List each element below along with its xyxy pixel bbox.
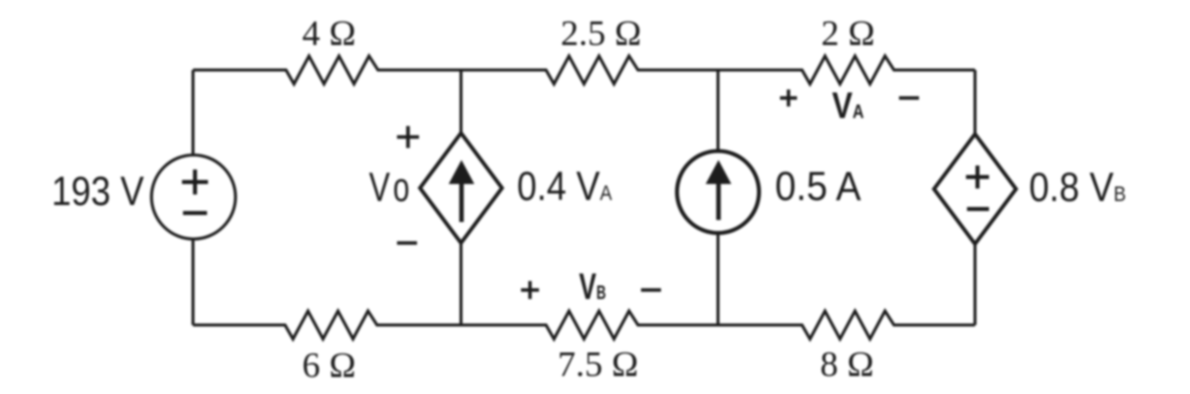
svg-text:0.8 VB: 0.8 VB — [1029, 164, 1126, 210]
minus VA — [899, 96, 919, 99]
plus Vo — [397, 126, 419, 148]
dependent voltage source U2 diamond 0.8VB — [934, 134, 1016, 244]
wire right branch bottom — [974, 244, 977, 325]
svg-text:7.5 Ω: 7.5 Ω — [558, 344, 639, 384]
svg-text:VA: VA — [832, 85, 864, 126]
wire bottom rail with resistors — [193, 311, 975, 339]
svg-text:2 Ω: 2 Ω — [821, 13, 875, 53]
wire node A branch top — [460, 70, 463, 133]
svg-text:o: o — [393, 164, 410, 210]
voltage source V1 193V circle — [152, 155, 236, 239]
svg-text:VB: VB — [579, 266, 606, 307]
wire left branch bottom — [192, 239, 195, 325]
wire node B branch bottom — [717, 232, 720, 325]
svg-text:8 Ω: 8 Ω — [820, 344, 874, 384]
wire node B branch top — [717, 70, 720, 151]
wire right branch top — [974, 70, 977, 134]
wire node A branch bottom — [460, 243, 463, 325]
wire left branch top — [192, 70, 195, 155]
current source I1 circle 0.5A — [677, 151, 759, 233]
svg-text:0.4 VA: 0.4 VA — [517, 163, 612, 209]
minus VB — [641, 288, 661, 291]
svg-text:0.5 A: 0.5 A — [775, 163, 862, 209]
svg-text:6 Ω: 6 Ω — [302, 345, 356, 385]
dependent current source U1 diamond 0.4VA — [420, 133, 502, 243]
wire top rail with resistors — [193, 56, 975, 84]
svg-text:193 V: 193 V — [52, 168, 145, 214]
plus VA — [780, 90, 797, 107]
plus VB — [521, 281, 539, 299]
svg-text:4 Ω: 4 Ω — [302, 13, 356, 53]
svg-text:2.5 Ω: 2.5 Ω — [561, 13, 642, 53]
svg-text:V: V — [369, 164, 390, 210]
minus Vo — [397, 241, 417, 245]
